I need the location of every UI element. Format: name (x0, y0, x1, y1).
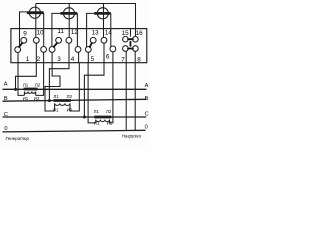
svg-text:5: 5 (91, 56, 95, 63)
wire voltage column element 1 (35, 4, 37, 38)
wire stub box top to neutral cluster (129, 29, 131, 37)
wire terminal4 to CT-B secondary I2 (70, 63, 79, 111)
CT C secondary coil (96, 120, 110, 122)
wire terminal 12 column inside box (68, 43, 70, 63)
svg-text:И2: И2 (107, 121, 113, 126)
wire terminal 14 column inside box (103, 43, 105, 63)
wire terminal6 to CT-C secondary I2 (110, 63, 113, 123)
terminal 11 (56, 37, 62, 43)
link neutral upper pair (128, 38, 133, 40)
wire terminal 2 down (43, 52, 45, 63)
wire terminal2 to CT-A secondary I2 (36, 63, 44, 96)
svg-text:Л2: Л2 (106, 109, 112, 114)
svg-text:4: 4 (71, 56, 75, 63)
jumper neutral cluster vertical (129, 42, 131, 46)
svg-text:10: 10 (37, 29, 45, 36)
bus line 0 (3, 130, 146, 132)
terminal 16 upper (133, 36, 139, 42)
svg-text:7: 7 (121, 57, 125, 64)
wire voltage column element 3 (103, 4, 105, 38)
wire terminal 6 down (112, 52, 114, 63)
wire element1 bar right to terminal 2 (43, 13, 45, 47)
wire terminal 4 down (78, 52, 80, 63)
meter element U1 circle (29, 7, 40, 18)
bus line C (3, 116, 147, 118)
terminal 10 (33, 37, 39, 43)
terminal 2 (41, 47, 47, 53)
wire element3 bar left to terminal 5 (87, 13, 95, 47)
svg-text:Нагрузка: Нагрузка (122, 134, 142, 139)
terminal 5 (85, 47, 91, 53)
svg-text:И2: И2 (34, 96, 40, 101)
wire element3 bar right to terminal 6 (110, 13, 112, 47)
svg-text:В: В (4, 96, 8, 102)
svg-text:А: А (145, 83, 149, 89)
test box outline (11, 29, 147, 63)
svg-text:1: 1 (26, 56, 30, 63)
svg-text:Л1: Л1 (23, 83, 29, 88)
wire terminal 1 down (17, 52, 19, 63)
wire voltage column element 2 (68, 4, 70, 38)
CT A primary bar (24, 88, 38, 91)
svg-text:2: 2 (37, 56, 41, 63)
wire terminal 3 down (51, 52, 53, 63)
terminal 7 lower (123, 46, 129, 52)
svg-text:Генератор: Генератор (6, 136, 30, 141)
svg-text:15: 15 (122, 30, 130, 37)
CT B secondary stubs (55, 103, 70, 111)
jumper terminals 11-3 (54, 43, 57, 47)
CT A secondary coil (24, 92, 35, 94)
bar current winding element 3 (94, 12, 111, 15)
terminal 6 (110, 46, 116, 52)
svg-text:11: 11 (57, 28, 64, 35)
terminal 14 (101, 37, 107, 43)
svg-text:Л1: Л1 (53, 94, 59, 99)
terminal 15 upper (123, 36, 129, 42)
wire terminal3 to CT-B secondary I1 (45, 63, 60, 111)
svg-text:И1: И1 (23, 96, 29, 101)
bus line B (3, 99, 147, 101)
svg-text:С: С (145, 112, 149, 118)
svg-text:0: 0 (145, 124, 148, 130)
svg-text:И2: И2 (67, 108, 73, 113)
link neutral lower pair (128, 48, 133, 50)
terminal 1 (15, 47, 21, 53)
CT C primary bar (94, 116, 111, 119)
svg-text:Л2: Л2 (67, 94, 73, 99)
svg-text:Л2: Л2 (35, 83, 41, 88)
wire element1 bar left to terminal 1 (20, 12, 27, 47)
jumper terminals 13-5 (90, 43, 92, 47)
meter element U3 circle (97, 8, 108, 19)
wire neutral left down from cluster (125, 51, 127, 130)
svg-text:И1: И1 (94, 121, 100, 126)
wire element2 bar right to terminal 4 (76, 13, 78, 46)
wire voltage tap A from terminal 10 (16, 63, 37, 90)
svg-text:6: 6 (106, 53, 110, 60)
svg-text:9: 9 (23, 30, 27, 37)
wire element2 bar left to terminal 3 (52, 13, 61, 46)
svg-text:В: В (145, 96, 149, 102)
svg-text:А: А (4, 82, 8, 88)
wire terminal 5 down (87, 52, 89, 63)
jumper terminals 9-1 (19, 43, 22, 47)
terminal 4 (75, 47, 81, 53)
wire terminal1 to CT-A secondary I1 (18, 63, 24, 96)
CT B secondary coil (55, 103, 70, 105)
wire terminal5 to CT-C secondary I1 (88, 63, 96, 123)
terminal 8 lower (133, 46, 139, 52)
wire voltage common feeder top (36, 4, 136, 37)
wire terminal 10 column inside box (35, 43, 37, 63)
terminal 13 (90, 37, 96, 43)
junction node dot B (48, 99, 51, 102)
terminal 3 (49, 47, 55, 53)
svg-text:14: 14 (105, 30, 113, 37)
junction node dot A (14, 88, 17, 91)
svg-text:12: 12 (71, 29, 79, 36)
wire voltage tap C from terminal 14 (84, 63, 104, 117)
svg-text:С: С (4, 112, 8, 118)
svg-text:3: 3 (57, 56, 61, 63)
CT A secondary stubs (24, 92, 35, 96)
svg-text:0: 0 (4, 126, 7, 132)
bar current winding element 2 (60, 12, 77, 15)
meter element U2 circle (63, 8, 74, 19)
svg-text:Л1: Л1 (94, 109, 100, 114)
wire voltage tap B from terminal 12 (49, 63, 69, 101)
terminal 12 (66, 37, 72, 43)
svg-text:13: 13 (92, 29, 100, 36)
svg-text:И1: И1 (53, 108, 59, 113)
svg-text:16: 16 (136, 30, 144, 37)
wire neutral right down from cluster (134, 51, 136, 130)
bar current winding element 1 (27, 11, 44, 14)
terminal 9 (21, 37, 27, 43)
CT C secondary stubs (96, 120, 110, 123)
svg-text:8: 8 (137, 57, 141, 64)
bus line A (3, 88, 147, 90)
CT B primary bar (54, 99, 71, 102)
junction node dot C (83, 116, 86, 119)
